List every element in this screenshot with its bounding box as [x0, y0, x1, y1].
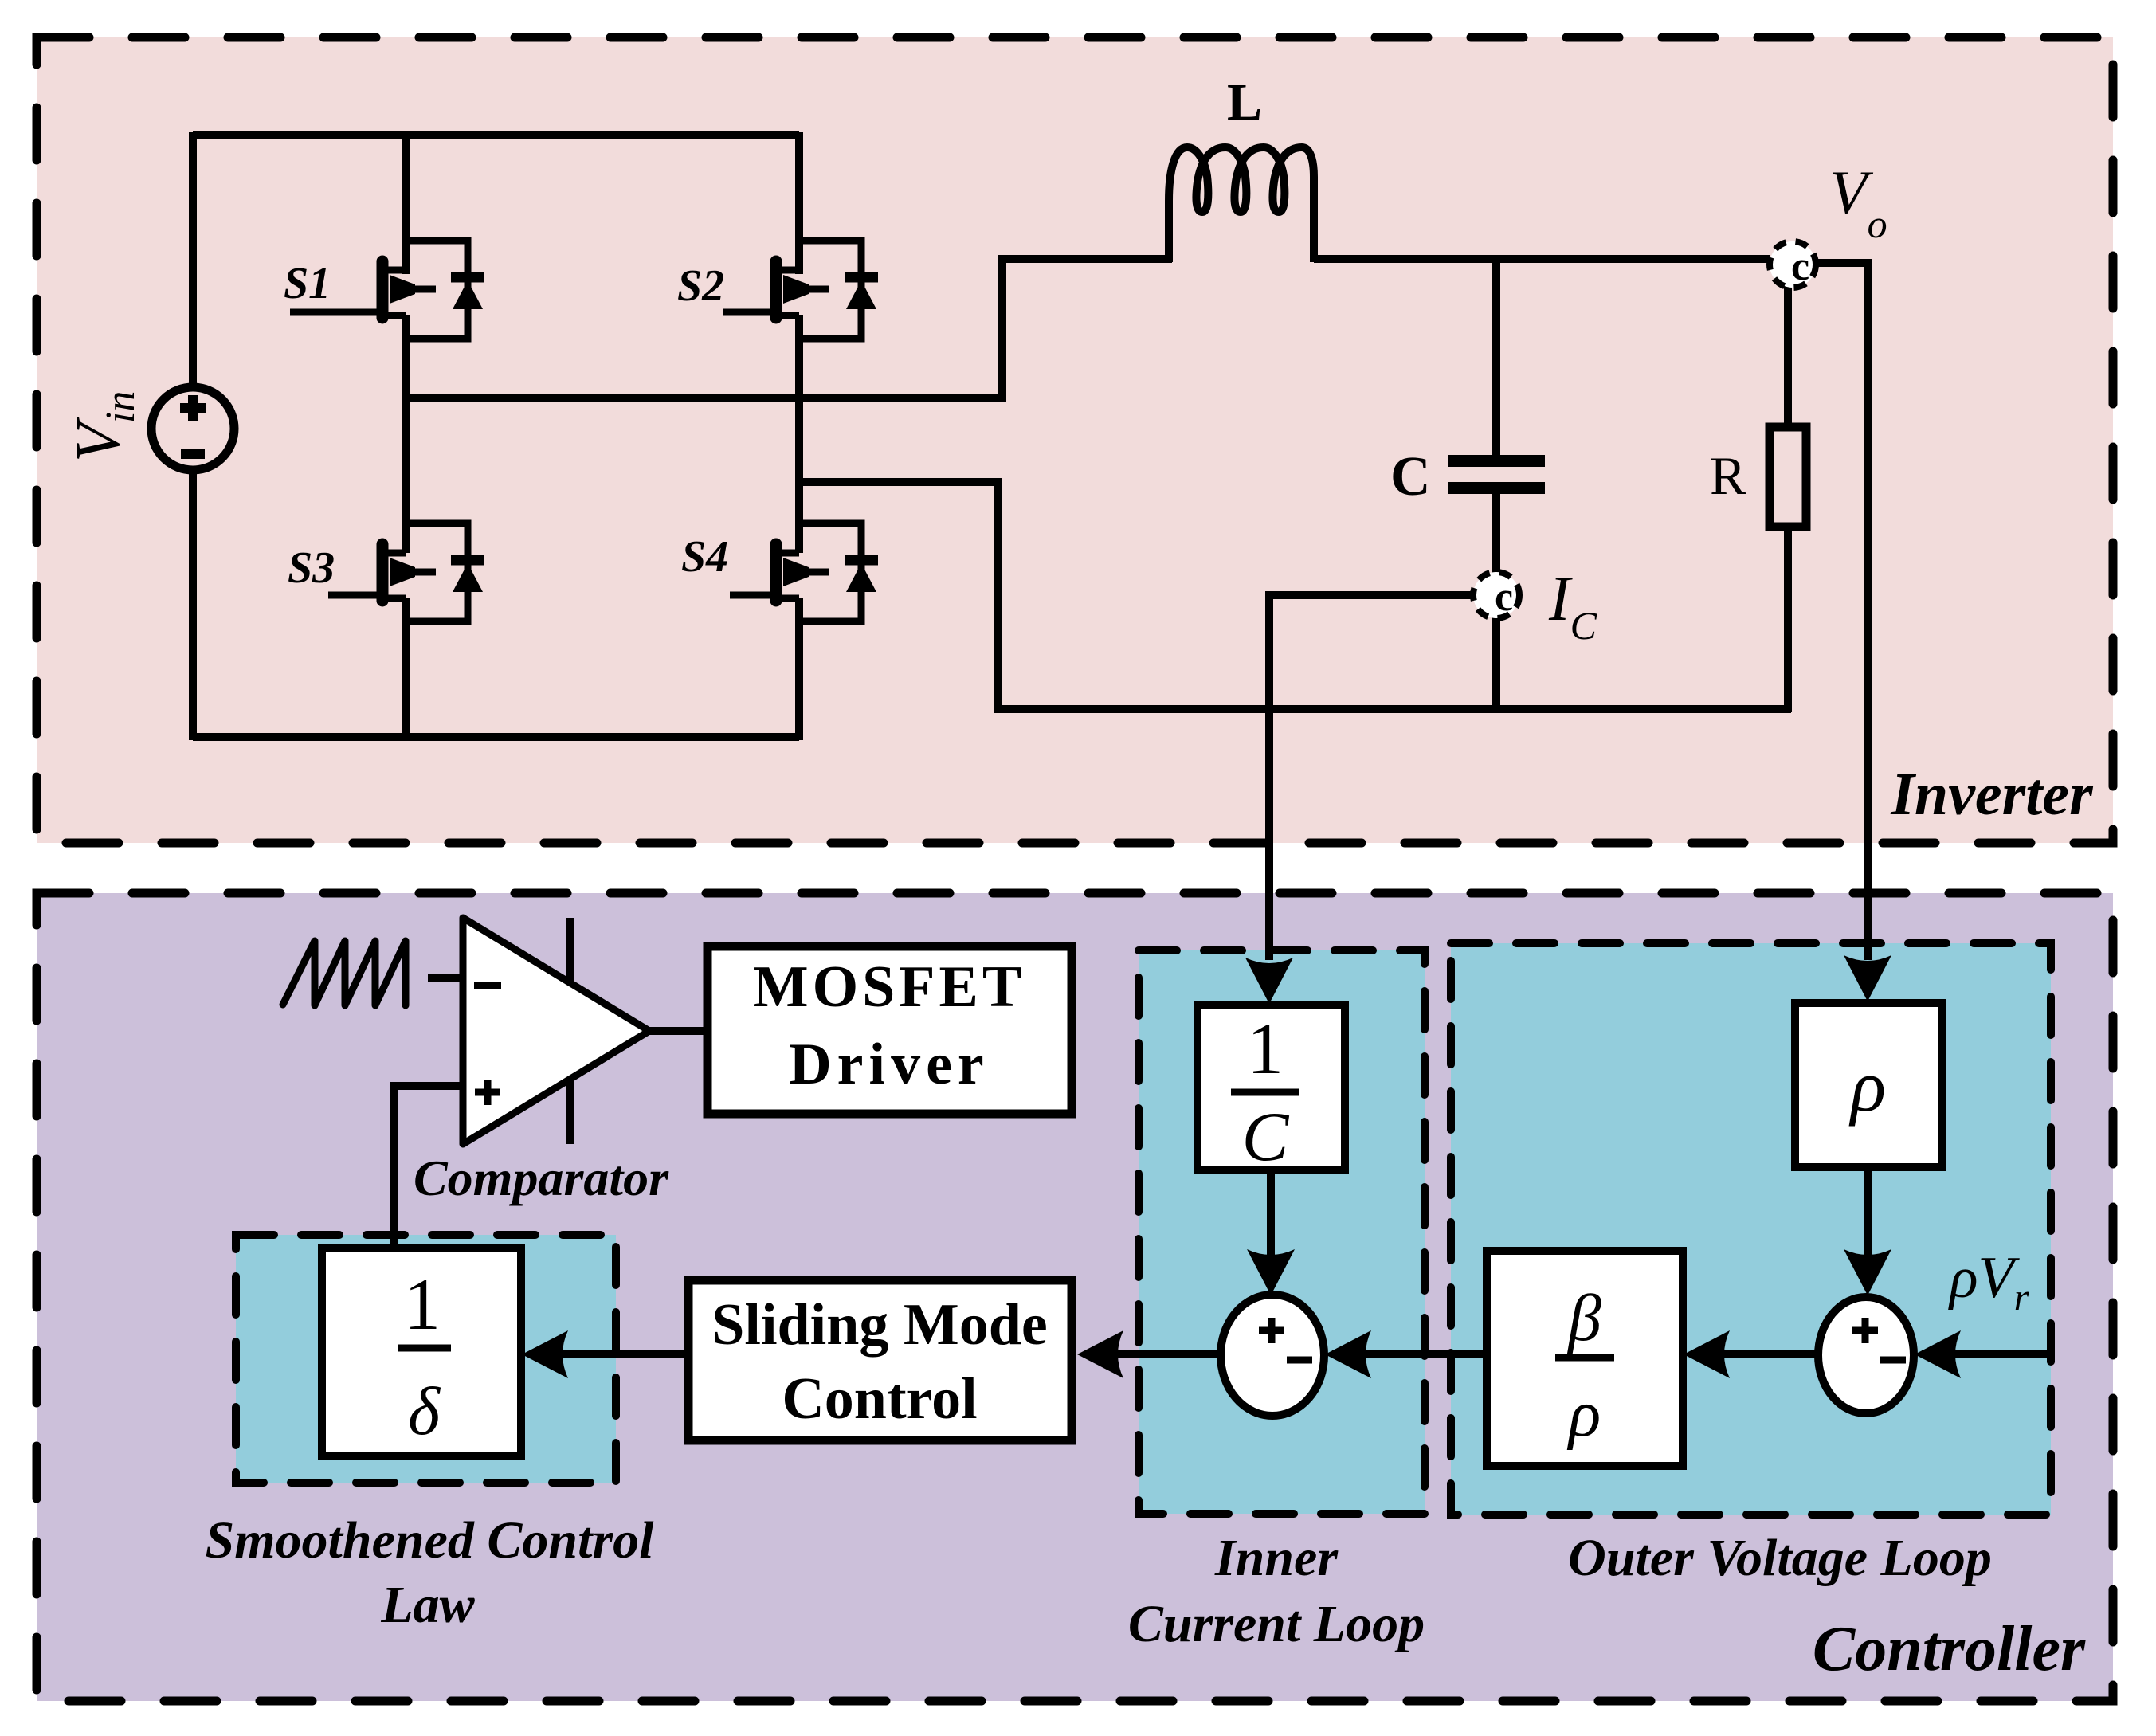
wire sliding mode control to 1/delta [522, 1330, 688, 1378]
wire capacitor top lead [1492, 259, 1500, 460]
wire Vin lower lead [189, 469, 197, 740]
svg-text:Inner: Inner [1214, 1529, 1339, 1587]
controller region box [37, 893, 2113, 1701]
transistor S1 [290, 241, 484, 339]
svg-text:1: 1 [1247, 1008, 1284, 1089]
svg-text:S4: S4 [681, 532, 728, 582]
svg-text:C: C [1242, 1099, 1290, 1176]
svg-text:R: R [1710, 445, 1746, 506]
svg-text:Driver: Driver [789, 1032, 990, 1097]
wire rhoVr reference input [1915, 1330, 2048, 1378]
source Vin [151, 387, 234, 470]
capacitor C [1448, 455, 1545, 494]
wire R upper lead [1784, 263, 1792, 427]
svg-text:MOSFET: MOSFET [753, 954, 1025, 1020]
wire top rail [193, 131, 799, 139]
block 1/C [1198, 1005, 1345, 1176]
svg-text:Comparator: Comparator [414, 1150, 669, 1206]
svg-text:c: c [1495, 574, 1513, 620]
inner current loop region box [1139, 950, 1425, 1514]
wire 1/C to sum1 [1247, 1170, 1295, 1295]
arrowhead Ic into 1/C [1245, 958, 1293, 1004]
svg-text:Current Loop: Current Loop [1128, 1595, 1425, 1653]
node Vo sensor [1770, 241, 1816, 289]
summing junction sum1 [1221, 1295, 1324, 1416]
wire Ic tap [1269, 595, 1476, 960]
wire sum2 to beta/rho [1684, 1330, 1818, 1378]
inverter region box [37, 37, 2113, 843]
wire 1/delta to comparator plus input [394, 1086, 463, 1248]
svg-text:ρ: ρ [1848, 1045, 1886, 1127]
block MOSFET Driver [708, 946, 1072, 1114]
svg-text:L: L [1227, 73, 1262, 131]
block rho [1795, 1003, 1942, 1167]
smoothened control law region box [236, 1235, 616, 1483]
wire beta/rho to sum1 [1325, 1330, 1487, 1378]
svg-text:Sliding Mode: Sliding Mode [711, 1292, 1048, 1358]
summing junction sum2 [1818, 1297, 1914, 1413]
transistor S4 [730, 523, 878, 621]
wire rho to sum2 [1844, 1167, 1891, 1295]
svg-text:Law: Law [380, 1576, 475, 1634]
block Sliding Mode Control [688, 1280, 1072, 1440]
wire sum1 to sliding mode control [1077, 1330, 1221, 1378]
svg-text:S3: S3 [288, 543, 335, 593]
wire bottom rail [193, 733, 799, 741]
label Inner Current Loop [1128, 1529, 1425, 1653]
inductor L [1169, 147, 1314, 262]
op-amp comparator [463, 918, 649, 1144]
wire left leg middle [402, 315, 410, 553]
wire right leg lower [795, 598, 803, 740]
transistor S3 [328, 523, 484, 621]
node Ic sensor [1473, 572, 1519, 620]
wire bridge output to inductor [406, 259, 1172, 398]
svg-text:c: c [1791, 244, 1809, 289]
wire Ic sensor to return bus [1492, 617, 1500, 712]
svg-text:ρ: ρ [1566, 1377, 1601, 1451]
wire sawtooth to comparator [428, 974, 463, 982]
wire bridge return bus [799, 482, 1791, 709]
transistor S2 [723, 241, 878, 339]
svg-text:Outer Voltage Loop: Outer Voltage Loop [1568, 1529, 1992, 1587]
wire Vo tap [1816, 263, 1868, 960]
svg-text:1: 1 [404, 1264, 441, 1345]
wire right leg middle [795, 315, 803, 553]
sawtooth waveform [283, 941, 406, 1005]
svg-text:S2: S2 [677, 261, 724, 311]
label Smoothened Control Law [206, 1511, 655, 1634]
wire right leg upper [795, 132, 803, 274]
svg-text:C: C [1390, 446, 1431, 507]
wire R lower lead [1784, 527, 1792, 712]
svg-text:δ: δ [408, 1373, 441, 1449]
svg-text:Inverter: Inverter [1890, 761, 2094, 828]
wire comparator output [649, 1027, 708, 1035]
svg-text:Control: Control [782, 1366, 977, 1432]
arrowhead Vo into rho [1844, 955, 1891, 1001]
wire left leg upper [402, 132, 410, 274]
resistor R [1770, 427, 1806, 527]
wire capacitor bottom lead [1492, 494, 1500, 573]
svg-text:β: β [1566, 1281, 1601, 1355]
outer voltage loop region box [1451, 943, 2051, 1515]
block 1/delta [322, 1248, 521, 1456]
block beta/rho [1487, 1251, 1683, 1466]
svg-text:S1: S1 [284, 259, 331, 308]
wire Vin upper lead [189, 132, 197, 388]
svg-text:Smoothened Control: Smoothened Control [206, 1511, 655, 1569]
wire inductor to Vo node [1314, 255, 1770, 263]
wire left leg lower [402, 598, 410, 740]
svg-text:Controller: Controller [1813, 1614, 2086, 1684]
